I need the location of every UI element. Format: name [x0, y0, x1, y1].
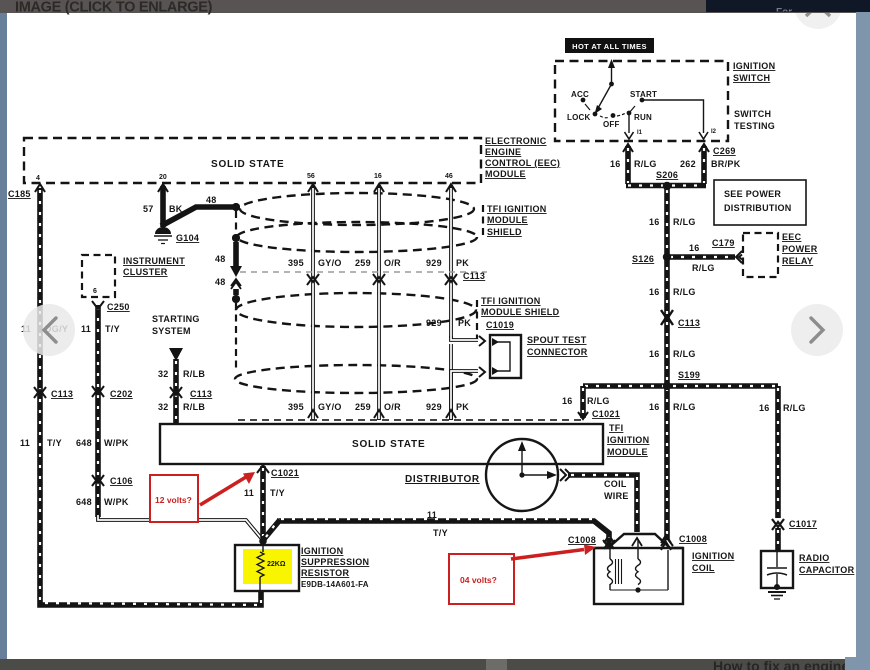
svg-text:GY/O: GY/O	[318, 258, 342, 268]
svg-text:11: 11	[20, 438, 30, 448]
svg-text:SHIELD: SHIELD	[487, 227, 522, 237]
svg-text:TFI IGNITION: TFI IGNITION	[487, 204, 547, 214]
svg-text:EEC: EEC	[782, 232, 802, 242]
svg-text:259: 259	[355, 402, 371, 412]
svg-text:929: 929	[426, 258, 442, 268]
svg-text:HOT AT ALL TIMES: HOT AT ALL TIMES	[572, 42, 647, 51]
svg-text:R/LG: R/LG	[692, 263, 715, 273]
svg-text:CONTROL (EEC): CONTROL (EEC)	[485, 158, 560, 168]
svg-text:R/LG: R/LG	[673, 402, 696, 412]
svg-text:11: 11	[81, 324, 91, 334]
svg-text:395: 395	[288, 402, 304, 412]
svg-text:C106: C106	[110, 476, 133, 486]
svg-text:TFI: TFI	[609, 423, 623, 433]
svg-text:SWITCH: SWITCH	[734, 109, 771, 119]
svg-text:48: 48	[206, 195, 217, 205]
svg-text:WIRE: WIRE	[604, 491, 629, 501]
svg-text:SYSTEM: SYSTEM	[152, 326, 191, 336]
svg-text:16: 16	[562, 396, 573, 406]
svg-text:262: 262	[680, 159, 696, 169]
svg-text:ACC: ACC	[571, 90, 589, 99]
svg-text:T/Y: T/Y	[47, 438, 62, 448]
svg-text:POWER: POWER	[782, 244, 818, 254]
svg-text:11: 11	[427, 510, 437, 520]
svg-text:ENGINE: ENGINE	[485, 147, 521, 157]
svg-text:R/LG: R/LG	[673, 349, 696, 359]
svg-text:IGNITION: IGNITION	[692, 551, 734, 561]
svg-text:DISTRIBUTION: DISTRIBUTION	[724, 203, 792, 213]
svg-text:R/LG: R/LG	[587, 396, 610, 406]
svg-text:MODULE: MODULE	[607, 447, 648, 457]
svg-text:O/R: O/R	[384, 258, 401, 268]
svg-text:COIL: COIL	[604, 479, 627, 489]
svg-text:04 volts?: 04 volts?	[460, 575, 497, 585]
svg-text:MODULE SHIELD: MODULE SHIELD	[481, 307, 560, 317]
svg-text:SOLID STATE: SOLID STATE	[352, 439, 425, 450]
svg-text:R/LG: R/LG	[634, 159, 657, 169]
svg-text:57: 57	[143, 204, 154, 214]
svg-text:259: 259	[355, 258, 371, 268]
svg-text:CONNECTOR: CONNECTOR	[527, 347, 588, 357]
svg-text:W/PK: W/PK	[104, 438, 129, 448]
svg-text:SEE POWER: SEE POWER	[724, 189, 781, 199]
svg-text:RESISTOR: RESISTOR	[301, 568, 349, 578]
svg-text:R/LB: R/LB	[183, 369, 205, 379]
svg-text:RELAY: RELAY	[782, 256, 813, 266]
svg-text:G104: G104	[176, 233, 199, 243]
svg-text:IGNITION: IGNITION	[733, 61, 775, 71]
svg-text:C202: C202	[110, 389, 133, 399]
svg-text:STARTING: STARTING	[152, 314, 200, 324]
svg-text:R/LG: R/LG	[673, 287, 696, 297]
svg-text:648: 648	[76, 438, 92, 448]
svg-text:SWITCH: SWITCH	[733, 73, 770, 83]
svg-text:C179: C179	[712, 238, 735, 248]
svg-text:BK: BK	[169, 204, 183, 214]
svg-text:C1008: C1008	[568, 535, 596, 545]
svg-text:T/Y: T/Y	[433, 528, 448, 538]
svg-text:R/LG: R/LG	[673, 217, 696, 227]
svg-text:929: 929	[426, 318, 442, 328]
svg-text:PK: PK	[456, 258, 469, 268]
svg-text:11: 11	[244, 488, 254, 498]
svg-text:TESTING: TESTING	[734, 121, 775, 131]
svg-text:S206: S206	[656, 170, 678, 180]
svg-text:CAPACITOR: CAPACITOR	[799, 565, 855, 575]
svg-text:RUN: RUN	[634, 113, 652, 122]
svg-text:SUPPRESSION: SUPPRESSION	[301, 557, 369, 567]
svg-text:48: 48	[215, 277, 226, 287]
svg-text:395: 395	[288, 258, 304, 268]
svg-text:C269: C269	[713, 146, 736, 156]
svg-text:T/Y: T/Y	[105, 324, 120, 334]
svg-text:SPOUT TEST: SPOUT TEST	[527, 335, 587, 345]
svg-text:16: 16	[374, 173, 382, 180]
svg-text:C1008: C1008	[679, 534, 707, 544]
svg-text:R/LB: R/LB	[183, 402, 205, 412]
svg-text:16: 16	[649, 287, 660, 297]
svg-text:C113: C113	[190, 389, 212, 399]
svg-text:S126: S126	[632, 254, 654, 264]
svg-text:LOCK: LOCK	[567, 113, 590, 122]
svg-text:START: START	[630, 90, 657, 99]
svg-text:R/LG: R/LG	[783, 403, 806, 413]
svg-text:How to fix an engine: How to fix an engine	[713, 658, 849, 670]
svg-text:648: 648	[76, 497, 92, 507]
svg-text:SOLID STATE: SOLID STATE	[211, 159, 284, 170]
svg-text:16: 16	[649, 217, 660, 227]
svg-text:PK: PK	[456, 402, 469, 412]
svg-text:16: 16	[689, 243, 700, 253]
svg-text:O/R: O/R	[384, 402, 401, 412]
svg-text:DISTRIBUTOR: DISTRIBUTOR	[405, 474, 480, 485]
svg-text:MODULE: MODULE	[487, 215, 528, 225]
svg-text:S199: S199	[678, 370, 700, 380]
svg-text:COIL: COIL	[692, 563, 715, 573]
svg-text:C1021: C1021	[592, 409, 620, 419]
svg-text:ELECTRONIC: ELECTRONIC	[485, 136, 547, 146]
svg-text:E9DB-14A601-FA: E9DB-14A601-FA	[301, 580, 369, 589]
svg-text:I2: I2	[711, 129, 717, 135]
svg-text:C113: C113	[51, 389, 73, 399]
svg-text:4: 4	[36, 175, 40, 182]
svg-text:T/Y: T/Y	[270, 488, 285, 498]
svg-text:INSTRUMENT: INSTRUMENT	[123, 256, 185, 266]
svg-text:12 volts?: 12 volts?	[155, 495, 192, 505]
svg-text:C1017: C1017	[789, 519, 817, 529]
svg-text:16: 16	[649, 402, 660, 412]
svg-text:CLUSTER: CLUSTER	[123, 267, 168, 277]
svg-text:MODULE: MODULE	[485, 169, 526, 179]
svg-text:46: 46	[445, 173, 453, 180]
svg-text:32: 32	[158, 369, 169, 379]
svg-text:C1019: C1019	[486, 320, 514, 330]
svg-text:22KΩ: 22KΩ	[267, 561, 286, 568]
svg-text:16: 16	[649, 349, 660, 359]
svg-text:GY/O: GY/O	[318, 402, 342, 412]
svg-text:32: 32	[158, 402, 169, 412]
svg-text:TFI IGNITION: TFI IGNITION	[481, 296, 541, 306]
svg-text:W/PK: W/PK	[104, 497, 129, 507]
svg-text:C1021: C1021	[271, 468, 299, 478]
svg-text:C113: C113	[463, 271, 485, 281]
svg-text:56: 56	[307, 173, 315, 180]
svg-text:BR/PK: BR/PK	[711, 159, 741, 169]
svg-text:C185: C185	[8, 189, 31, 199]
svg-text:IGNITION: IGNITION	[607, 435, 649, 445]
svg-text:48: 48	[215, 254, 226, 264]
svg-text:OFF: OFF	[603, 120, 620, 129]
svg-text:16: 16	[759, 403, 770, 413]
svg-text:PK: PK	[458, 318, 471, 328]
svg-text:C113: C113	[678, 318, 700, 328]
svg-text:RADIO: RADIO	[799, 553, 830, 563]
svg-text:16: 16	[610, 159, 621, 169]
svg-text:IMAGE (CLICK TO ENLARGE): IMAGE (CLICK TO ENLARGE)	[15, 0, 213, 16]
svg-text:C250: C250	[107, 302, 130, 312]
svg-text:IGNITION: IGNITION	[301, 546, 343, 556]
svg-text:20: 20	[159, 174, 167, 181]
svg-text:929: 929	[426, 402, 442, 412]
svg-text:6: 6	[93, 288, 97, 295]
svg-text:I1: I1	[637, 130, 643, 136]
